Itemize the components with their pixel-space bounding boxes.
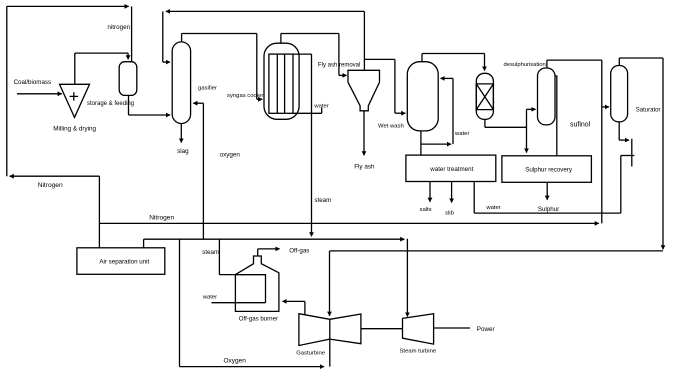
wire water line from treatment [474, 212, 621, 214]
svg-text:Steam turbine: Steam turbine [400, 348, 437, 354]
wire border-left nitrogen return up [6, 6, 8, 176]
wire gasifier top riser [181, 34, 183, 42]
wire cooler to funnel top horizontal [281, 33, 339, 35]
component fly ash removal funnel [348, 70, 380, 111]
wire salts arrow [429, 182, 431, 202]
wire wet wash recirc riser [452, 78, 454, 144]
wire nitrogen return horizontal from ASU riser (arrow left at border corner) [10, 175, 100, 177]
vessel syngas cooler shell [264, 43, 299, 119]
svg-text:Off-gas: Off-gas [289, 247, 309, 254]
svg-text:water treatment: water treatment [429, 166, 473, 173]
wire turbine exhaust into burner arrow left [282, 300, 305, 302]
wire saturator bottom drop [618, 122, 620, 140]
wire packed column bottom drop [484, 119, 486, 127]
wire coal to gasifier arrow [129, 114, 171, 116]
wire water loop top horizontal [621, 155, 635, 157]
vessel wet wash [407, 62, 438, 131]
svg-text:slag: slag [177, 148, 189, 155]
svg-text:water: water [313, 103, 328, 109]
svg-text:Air separation unit: Air separation unit [99, 258, 149, 265]
svg-text:Wet wash: Wet wash [378, 123, 404, 129]
wire wet wash to packed column horizontal [422, 53, 485, 55]
wire power line [434, 327, 471, 329]
component milling & drying triangle [60, 84, 90, 117]
wire fuel return horizontal [330, 250, 664, 252]
component tube line 2 [284, 54, 286, 113]
wire saturator top horizontal [619, 57, 663, 59]
box water treatment [406, 155, 496, 181]
svg-text:Fly ash removal: Fly ash removal [318, 63, 360, 69]
wire oxygen bottom horizontal arrow [180, 366, 325, 368]
wire drop into sulphur recovery arrow [526, 127, 528, 152]
component gas turbine waist [329, 319, 331, 339]
wire steam turbine feed arrow [406, 239, 408, 317]
component tube line 1 [276, 54, 278, 113]
wire desulph top horizontal [547, 59, 602, 61]
wire slib arrow [451, 182, 453, 203]
svg-text:oxygen: oxygen [220, 151, 241, 158]
svg-text:water: water [202, 295, 217, 301]
wire water loop riser [620, 156, 622, 214]
wire ASU riser [98, 176, 100, 248]
svg-text:Nitrogen: Nitrogen [38, 182, 63, 189]
wire cooler inlet drop [256, 34, 258, 100]
wire into saturator arrow [602, 106, 609, 108]
wire border-top nitrogen to storage (arrow right at corner) [7, 5, 129, 7]
svg-text:desulphurisation: desulphurisation [504, 62, 546, 68]
svg-text:Sulphur recovery: Sulphur recovery [525, 167, 573, 174]
wire sulphur arrow down [546, 182, 548, 200]
wire milling drop arrow into storage vessel [127, 53, 129, 59]
svg-text:Milling & drying: Milling & drying [53, 126, 96, 133]
wire off-gas arrow right [258, 248, 280, 250]
svg-text:storage & feeding: storage & feeding [87, 101, 134, 107]
wire slag arrow [180, 124, 182, 143]
svg-text:Coal/biomass: Coal/biomass [14, 79, 52, 86]
wire nitrogen line A arrow into riser [99, 222, 599, 224]
wire blowdown stub vertical [631, 139, 633, 167]
svg-text:water: water [454, 131, 469, 137]
wire saturator top riser [618, 58, 620, 66]
wire coal/biomass feed arrow [17, 93, 62, 95]
svg-text:sufinol: sufinol [570, 121, 591, 128]
vessel packed column [476, 73, 493, 119]
wire oxygen drop left [179, 239, 181, 366]
wire packed column inlet arrow down [484, 54, 486, 71]
wire saturator blowdown arrow right [619, 139, 629, 141]
symbol plus inside triangle [70, 92, 78, 100]
wire syngas into cooler arrow [257, 98, 263, 100]
svg-text:Off-gas burner: Off-gas burner [239, 316, 278, 323]
wire oxygen into gasifier arrow (points left) [193, 102, 203, 104]
wire saturator riser (desulph gas + nitrogen) [601, 60, 603, 223]
svg-text:Fly ash: Fly ash [354, 164, 375, 171]
wire recycle into gasifier arrow [163, 61, 170, 63]
wire water stub [321, 108, 323, 114]
wire steam out of cooler [293, 53, 312, 55]
wire oxygen riser to gasifier [202, 103, 204, 239]
component gas turbine right trapezoid [330, 314, 361, 344]
wire wet wash top riser [421, 54, 423, 62]
svg-text:syngas cooler: syngas cooler [227, 93, 263, 99]
svg-text:Saturator: Saturator [636, 107, 661, 113]
wire recycle vertical [162, 11, 164, 62]
component off-gas burner inner box [235, 275, 265, 303]
component gas turbine left trapezoid [299, 314, 330, 346]
svg-text:nitrogen: nitrogen [107, 24, 130, 31]
wire burner steam drop [218, 239, 220, 274]
wire exhaust riser from turbine [304, 301, 306, 315]
component steam turbine trapezoid [403, 314, 434, 344]
wire gasifier to cooler top horizontal [182, 33, 257, 35]
wire wet wash recirc branch arrow right [421, 143, 451, 145]
wire burner water inlet [211, 302, 265, 304]
wire fuel drop into gas turbine arrow [329, 251, 331, 316]
wire packed bottom horizontal [485, 126, 527, 128]
wire recycle top horizontal (arrow left near corner) [166, 10, 365, 12]
box air separation unit [77, 248, 165, 274]
svg-text:Nitrogen: Nitrogen [149, 214, 174, 221]
wire desulph riser [526, 109, 528, 127]
vessel gasifier [172, 42, 190, 124]
wire into fly ash removal arrow [339, 74, 347, 76]
component packed column X box [476, 84, 493, 110]
svg-text:salts: salts [420, 207, 432, 213]
svg-text:Sulphur: Sulphur [538, 206, 559, 213]
wire milling riser [74, 53, 76, 84]
wire oxygen header line B arrow into steam drop [144, 238, 405, 240]
wire water treatment bottom drop [473, 182, 475, 214]
wire water into cooler [293, 112, 322, 114]
wire desulph right stub [555, 76, 557, 156]
wire storage bottom drop [128, 95, 130, 115]
wire wet wash inlet drop [394, 59, 396, 113]
wire off-gas riser [257, 249, 259, 256]
svg-text:Gasturbine: Gasturbine [296, 351, 326, 357]
svg-text:steam: steam [314, 197, 331, 204]
wire burner steam horizontal [219, 274, 235, 276]
component syngas cooler tube bundle [269, 54, 293, 113]
wire right fuel downcomer [662, 58, 664, 249]
component off-gas burner outline [235, 256, 279, 311]
svg-text:Oxygen: Oxygen [224, 358, 247, 365]
wire into desulphurisation arrow [527, 108, 536, 110]
vessel saturator [611, 66, 628, 122]
vessel desulphurisation [538, 68, 556, 125]
wire funnel branch to wet wash [364, 58, 395, 60]
wire turbine shaft [361, 328, 403, 330]
wire nitrogen drop into storage vessel [131, 6, 133, 61]
vessel storage & feeding [119, 62, 137, 96]
wire wet wash recirc return arrow left [441, 77, 454, 79]
svg-text:slib: slib [445, 211, 455, 217]
wire funnel top riser [363, 11, 365, 70]
wire ASU stub to oxygen header [143, 239, 145, 248]
svg-text:Power: Power [477, 326, 495, 333]
wire funnel inlet drop [338, 34, 340, 76]
wire wet wash bottom to water treatment [420, 131, 422, 155]
box sulphur recovery [502, 156, 592, 183]
wire fly ash arrow down [363, 111, 365, 156]
wire cooler top riser [280, 34, 282, 44]
wire oxygen riser into turbine [329, 339, 331, 367]
wire steam drop arrow into header [311, 54, 313, 236]
svg-text:steam: steam [202, 249, 219, 256]
wire desulph top riser [546, 60, 548, 68]
wire milling horizontal to storage [75, 52, 128, 54]
wire into wet wash arrow [395, 112, 406, 114]
svg-text:gasifier: gasifier [198, 85, 217, 91]
svg-text:water: water [485, 205, 500, 211]
